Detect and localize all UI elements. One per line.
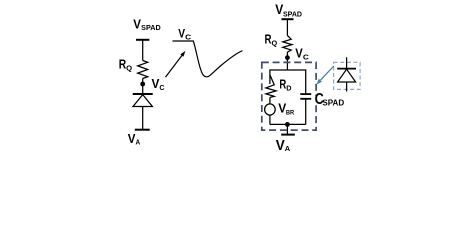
V_SPAD terminal bar (left) xyxy=(136,39,149,41)
V_A terminal bar (left) xyxy=(135,129,150,131)
svg-text:D: D xyxy=(286,83,292,92)
resistor R_Q (right) xyxy=(283,36,292,53)
label V_C (left node) xyxy=(152,76,166,92)
svg-text:Q: Q xyxy=(272,39,278,48)
label V_C (right node) xyxy=(295,45,309,61)
SPAD symbol dashed box xyxy=(334,62,361,89)
svg-text:A: A xyxy=(285,144,291,153)
label R_D xyxy=(279,77,292,93)
wire from R_Q to node (right) xyxy=(286,52,288,70)
diode D1 SPAD cathode bar (left) xyxy=(133,93,153,95)
voltage source V_BR circle xyxy=(265,104,276,115)
label V_A (left) xyxy=(128,131,140,146)
label C_SPAD xyxy=(315,91,345,108)
svg-text:C: C xyxy=(159,83,165,92)
V_SPAD terminal bar (right) xyxy=(282,18,294,20)
SPAD diode triangle xyxy=(338,69,356,82)
diode D1 SPAD triangle (left) xyxy=(133,95,152,107)
svg-text:C: C xyxy=(185,33,192,42)
bottom node junction dot xyxy=(285,122,290,127)
wire from R_Q to node (left) xyxy=(142,79,144,95)
svg-text:V: V xyxy=(133,17,141,32)
node V_C junction dot (left) xyxy=(140,82,145,87)
node V_C junction dot (right) xyxy=(285,55,290,60)
label R_Q (left) xyxy=(119,56,133,72)
svg-text:SPAD: SPAD xyxy=(141,25,161,32)
wire from bottom rail to V_A terminal (right) xyxy=(286,124,288,134)
annotation arrow from V_C node to waveform xyxy=(166,51,186,77)
capacitor C_SPAD top plate xyxy=(300,93,311,95)
svg-text:BR: BR xyxy=(286,110,295,117)
wire from V_BR to bottom rail xyxy=(269,115,271,124)
resistor R_D xyxy=(266,75,276,98)
label V_A (right) xyxy=(276,138,291,154)
resistor R_Q (left) xyxy=(138,61,148,79)
wire from V_SPAD terminal to R_Q (left) xyxy=(142,40,144,61)
svg-text:A: A xyxy=(136,139,141,146)
label V_C (waveform) xyxy=(178,27,192,42)
svg-text:SPAD: SPAD xyxy=(283,11,302,18)
svg-text:V: V xyxy=(276,138,285,154)
wire from diode to V_A terminal (left) xyxy=(142,107,144,130)
SPAD diode top stub wire xyxy=(346,57,348,68)
waveform V_C curve xyxy=(173,41,243,77)
SPAD diode cathode bar xyxy=(337,68,356,70)
label R_Q (right) xyxy=(265,32,278,48)
wire from R_D to V_BR source xyxy=(269,97,271,104)
node V_SPAD label (right circuit) xyxy=(275,1,302,18)
svg-text:C: C xyxy=(303,52,310,61)
SPAD model dashed box xyxy=(262,62,316,130)
wire from capacitor to bottom rail xyxy=(305,99,307,125)
V_A terminal bar (right) xyxy=(281,134,295,136)
label V_BR xyxy=(278,101,294,117)
bottom rail wire inside model box xyxy=(270,123,306,125)
capacitor C_SPAD bottom plate xyxy=(300,98,311,100)
node V_SPAD label (left circuit) xyxy=(133,17,161,33)
SPAD diode bottom stub wire xyxy=(346,82,348,92)
svg-text:SPAD: SPAD xyxy=(322,98,344,107)
svg-text:Q: Q xyxy=(126,63,132,72)
top rail wire inside model box xyxy=(270,70,306,94)
blue arrow from SPAD symbol to C_SPAD xyxy=(316,66,334,85)
wire from V_SPAD terminal to R_Q (right) xyxy=(286,19,288,35)
